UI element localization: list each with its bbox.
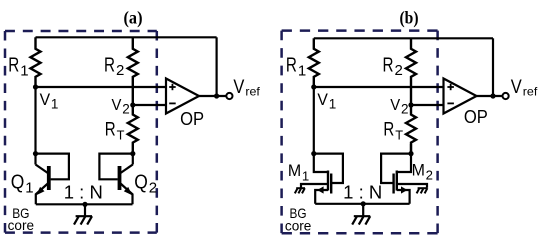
transistor Q1 emitter arrow (a) bbox=[36, 187, 44, 195]
svg-text:core: core bbox=[8, 218, 34, 233]
svg-text:M: M bbox=[412, 160, 425, 179]
op-amp U2 triangle (b) bbox=[444, 79, 477, 114]
node M2 drain (b) bbox=[408, 151, 413, 156]
svg-text:R: R bbox=[104, 54, 115, 76]
mosfet M1 bulk ground (b) bbox=[296, 187, 305, 189]
svg-text:1: 1 bbox=[25, 179, 33, 196]
svg-text:1: 1 bbox=[329, 97, 337, 112]
wire V2 to op-amp - (a) bbox=[133, 104, 166, 106]
transistor Q1 collector lead (a) bbox=[36, 165, 48, 174]
transistor Q2 base-collector tie (a) bbox=[99, 154, 132, 180]
wire bottom rail (a) bbox=[36, 203, 133, 205]
svg-text:2: 2 bbox=[426, 167, 433, 182]
svg-text:V: V bbox=[390, 97, 400, 114]
mosfet M1 bulk lead (b) bbox=[301, 184, 328, 188]
transistor Q1 base-collector tie (a) bbox=[36, 154, 69, 180]
ground (a) bbox=[84, 204, 86, 215]
mosfet M2 bulk lead (b) bbox=[397, 184, 427, 188]
mosfet M1 channel bar (b) bbox=[327, 171, 329, 191]
node output junction (a) bbox=[214, 93, 219, 98]
mosfet M1 source lead (b) bbox=[315, 190, 328, 204]
svg-text:1: 1 bbox=[51, 97, 59, 112]
node ground tap (a) bbox=[82, 202, 87, 207]
node V2 (a) bbox=[130, 102, 135, 107]
svg-text:Q: Q bbox=[134, 171, 148, 193]
svg-text:V: V bbox=[233, 77, 244, 98]
op-amp U1 minus input (a) bbox=[169, 102, 176, 104]
wire V1 down to Q1 (a) bbox=[34, 87, 36, 165]
ground (b) bbox=[362, 204, 364, 216]
terminal Vref (a) bbox=[226, 93, 232, 99]
mosfet M2 drain lead (b) bbox=[397, 154, 411, 172]
wire top rail (b) bbox=[314, 37, 493, 39]
wire feedback drop (b) bbox=[492, 38, 494, 96]
node Q2 collector (a) bbox=[130, 151, 135, 156]
wire V1 down to M1 (b) bbox=[313, 87, 315, 154]
op-amp U2 minus input (b) bbox=[447, 102, 454, 104]
transistor Q2 emitter lead (a) bbox=[121, 184, 133, 205]
svg-text:core: core bbox=[285, 219, 311, 234]
svg-text:V: V bbox=[40, 90, 51, 109]
transistor Q1 emitter lead (a) bbox=[36, 184, 48, 205]
node V1 (a) bbox=[33, 84, 38, 89]
transistor Q1 base bar (a) bbox=[47, 166, 51, 190]
node output junction (b) bbox=[490, 93, 495, 98]
svg-text:V: V bbox=[511, 77, 522, 98]
svg-text:T: T bbox=[117, 127, 125, 142]
wire RT down to Q2 (a) bbox=[132, 154, 134, 165]
mosfet M1 source arrow (b) bbox=[317, 186, 323, 193]
wire V2 to op-amp - (b) bbox=[411, 104, 444, 106]
transistor Q2 base bar (a) bbox=[118, 166, 122, 190]
svg-text:(a): (a) bbox=[124, 8, 143, 29]
wire op-amp output (a) bbox=[199, 95, 226, 97]
svg-text:2: 2 bbox=[401, 102, 409, 117]
svg-text:2: 2 bbox=[149, 179, 157, 196]
resistor R2 (b) bbox=[406, 38, 416, 105]
mosfet M2 bulk ground (b) bbox=[418, 187, 428, 189]
node V1 (b) bbox=[311, 84, 316, 89]
mosfet M2 channel bar (b) bbox=[396, 171, 398, 191]
wire V1 to op-amp + (a) bbox=[36, 86, 167, 88]
svg-text:R: R bbox=[383, 54, 394, 76]
node ground tap (b) bbox=[361, 201, 366, 206]
svg-text:OP: OP bbox=[180, 108, 204, 129]
mosfet M2 source lead (b) bbox=[397, 190, 410, 204]
mosfet M1 gate-drain tie (b) bbox=[314, 154, 343, 183]
svg-text:2: 2 bbox=[122, 102, 130, 117]
svg-text:R: R bbox=[286, 54, 297, 76]
BG core dashed box (b) bbox=[282, 29, 438, 32]
svg-text:ref: ref bbox=[245, 85, 260, 99]
svg-text:(b): (b) bbox=[400, 8, 419, 29]
svg-text:1 : N: 1 : N bbox=[343, 182, 382, 203]
svg-text:ref: ref bbox=[523, 85, 538, 99]
svg-text:M: M bbox=[288, 161, 301, 180]
transistor Q2 emitter arrow (a) bbox=[124, 187, 132, 195]
node V2 (b) bbox=[408, 102, 413, 107]
transistor Q2 collector lead (a) bbox=[121, 165, 133, 174]
wire op-amp output (b) bbox=[477, 95, 503, 97]
wire feedback drop (a) bbox=[216, 37, 218, 96]
op-amp U2 plus input (b) bbox=[447, 86, 454, 88]
svg-text:1: 1 bbox=[302, 168, 309, 183]
wire top rail (a) bbox=[36, 36, 217, 38]
BG core dashed box (a) bbox=[5, 30, 157, 33]
resistor RT (b) bbox=[406, 105, 416, 154]
resistor R2 (a) bbox=[128, 37, 138, 105]
resistor R1 (b) bbox=[309, 38, 319, 87]
svg-text:2: 2 bbox=[116, 62, 124, 79]
resistor RT (a) bbox=[128, 105, 138, 154]
svg-text:R: R bbox=[8, 54, 19, 76]
svg-text:1: 1 bbox=[298, 62, 306, 79]
wire RT down to M2 (b) bbox=[410, 144, 412, 154]
mosfet M2 gate bar (b) bbox=[392, 174, 394, 194]
wire bottom rail (b) bbox=[315, 203, 409, 205]
svg-text:OP: OP bbox=[464, 106, 488, 127]
svg-text:R: R bbox=[383, 120, 394, 141]
node M1 drain (b) bbox=[311, 151, 316, 156]
terminal Vref (b) bbox=[503, 93, 509, 99]
op-amp U1 triangle (a) bbox=[166, 79, 199, 114]
svg-text:R: R bbox=[105, 120, 116, 141]
svg-text:V: V bbox=[112, 97, 122, 114]
op-amp U1 plus input (a) bbox=[169, 86, 176, 88]
svg-text:1: 1 bbox=[20, 62, 28, 79]
wire V1 to op-amp + (b) bbox=[314, 86, 444, 88]
svg-text:T: T bbox=[395, 127, 403, 142]
node Q1 collector (a) bbox=[33, 151, 38, 156]
svg-text:1 : N: 1 : N bbox=[64, 182, 103, 203]
mosfet M1 drain lead (b) bbox=[314, 154, 328, 172]
mosfet M2 source arrow (b) bbox=[401, 186, 407, 193]
svg-text:V: V bbox=[317, 90, 328, 109]
mosfet M2 gate-drain tie (b) bbox=[381, 154, 411, 183]
svg-text:Q: Q bbox=[11, 171, 25, 193]
mosfet M1 gate bar (b) bbox=[330, 174, 332, 194]
svg-text:2: 2 bbox=[395, 62, 403, 79]
resistor R1 (a) bbox=[31, 37, 41, 87]
